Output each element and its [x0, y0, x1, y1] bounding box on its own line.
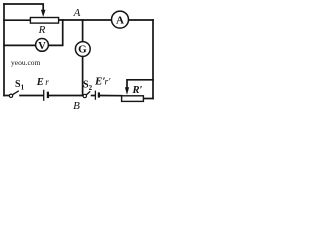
switch S2	[83, 91, 90, 97]
wire R to ammeter (node A rail)	[59, 19, 112, 21]
svg-text:A: A	[116, 14, 124, 26]
svg-text:R′: R′	[132, 85, 143, 96]
battery E-prime r-prime	[95, 91, 99, 100]
wire R-prime slider feed	[127, 80, 153, 88]
wire galvanometer down to node B	[82, 56, 84, 95]
svg-text:G: G	[78, 44, 87, 56]
wire left to voltmeter	[4, 44, 36, 46]
switch S1	[9, 91, 18, 98]
svg-text:V: V	[38, 41, 46, 52]
svg-text:R: R	[38, 24, 46, 36]
wire switch S1 to battery E	[20, 95, 43, 97]
slider arrow of R	[41, 10, 46, 17]
wire left border vertical	[3, 4, 5, 96]
svg-text:yeou.com: yeou.com	[11, 58, 41, 67]
resistor R (rheostat body)	[30, 18, 58, 24]
wire ammeter to right border	[128, 19, 153, 21]
wire R-prime right terminal	[143, 98, 153, 100]
wire battery E-prime to R-prime	[100, 95, 122, 97]
wire battery E to node B / switch S2	[49, 95, 83, 97]
svg-text:B: B	[73, 100, 80, 112]
wire bottom rail left	[4, 95, 9, 97]
battery E r	[44, 90, 48, 101]
svg-text:r: r	[45, 77, 49, 87]
ammeter A	[112, 11, 129, 28]
svg-text:A: A	[73, 7, 81, 19]
wire switch S2 to battery E-prime	[92, 95, 95, 97]
wire left to R	[4, 19, 30, 21]
voltmeter V	[36, 39, 49, 53]
wire galvanometer branch up	[82, 20, 84, 42]
slider arrow of R-prime	[125, 87, 129, 95]
svg-text:E: E	[36, 77, 44, 88]
wire top-left horizontal to slider	[4, 4, 43, 10]
resistor R-prime (rheostat body)	[122, 96, 144, 102]
svg-text:r′: r′	[105, 78, 112, 88]
wire voltmeter branch up	[48, 20, 62, 45]
wire right border vertical	[152, 20, 154, 99]
galvanometer G	[75, 42, 90, 57]
